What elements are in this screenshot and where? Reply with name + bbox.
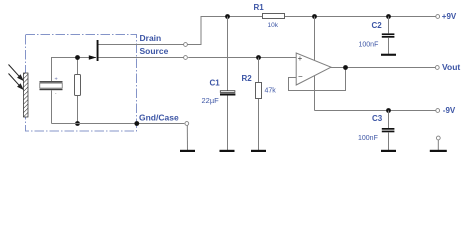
wire: R2 to ground: [258, 99, 260, 150]
node: op-amp supply junction: [312, 14, 317, 19]
wire: op-amp negative supply: [314, 76, 316, 111]
wire: C2 to ground: [388, 38, 390, 54]
node: C2 junction: [386, 14, 391, 19]
gate wire and arrow: [89, 57, 96, 59]
svg-text:+9V: +9V: [442, 12, 457, 21]
pin -9V terminal: [436, 109, 440, 113]
wire: inverting input / feedback loop: [289, 68, 346, 91]
svg-text:R2: R2: [242, 74, 253, 83]
wire: drain line: [99, 44, 185, 46]
wire: 0V terminal to ground: [437, 140, 439, 150]
resistor R1: [263, 14, 285, 19]
svg-text:22µF: 22µF: [202, 96, 220, 105]
pin 0V terminal: [436, 136, 440, 140]
node: case/rail junction: [134, 121, 139, 126]
IR arrow 1: [9, 65, 23, 81]
transistor Q1 (JFET) channel bar: [97, 40, 99, 61]
wire: Gnd/Case to ground: [186, 125, 188, 150]
ground bar under Gnd/Case: [180, 150, 195, 152]
capacitor C2: [382, 33, 395, 37]
IR arrow 2: [9, 74, 23, 90]
sensor case dash-dot outline: [26, 35, 137, 132]
wire: drain to top rail: [187, 17, 262, 45]
svg-text:C1: C1: [210, 79, 221, 88]
svg-text:100nF: 100nF: [359, 42, 379, 49]
svg-text:-9V: -9V: [443, 106, 456, 115]
wire: output: [331, 67, 436, 69]
ground bar under C1: [220, 150, 235, 152]
svg-text:47k: 47k: [265, 88, 277, 95]
node: C3 junction: [386, 108, 391, 113]
node: gate/resistor junction: [75, 55, 80, 60]
wire: gate line: [52, 58, 90, 82]
resistor Rg (internal): [75, 75, 81, 96]
wire: C1 to ground: [227, 96, 229, 151]
pin Gnd/Case terminal: [185, 122, 189, 126]
pyro element window (hatched bar): [24, 73, 29, 117]
wire: R2 riser: [258, 58, 260, 83]
node: R2 junction: [256, 55, 261, 60]
svg-text:+: +: [55, 77, 58, 83]
svg-text:Vout: Vout: [442, 62, 460, 72]
svg-text:+: +: [298, 54, 303, 63]
svg-text:100nF: 100nF: [358, 135, 378, 142]
wire: top rail right of R1: [285, 16, 437, 18]
node: C1 top junction: [225, 14, 230, 19]
wire: op-amp positive supply: [314, 17, 316, 61]
wire: element to ground rail: [51, 90, 53, 123]
ground bar under R2: [251, 150, 266, 152]
svg-text:Drain: Drain: [140, 33, 162, 43]
ground bar under C2: [381, 54, 396, 56]
sensor ground rail: [52, 123, 185, 125]
pyroelectric element PE: [40, 77, 63, 97]
svg-text:10k: 10k: [268, 22, 279, 29]
pin Source terminal: [184, 56, 188, 60]
op-amp U1: [296, 53, 331, 85]
wire: source line: [99, 57, 185, 59]
wire: source line to op-amp: [188, 57, 296, 59]
svg-text:R1: R1: [254, 3, 265, 12]
svg-text:-: -: [55, 91, 57, 97]
node: output junction: [343, 65, 348, 70]
capacitor C1: [220, 91, 235, 96]
svg-text:C2: C2: [372, 21, 383, 30]
wire: resistor to ground rail: [77, 96, 79, 124]
svg-text:C3: C3: [372, 114, 383, 123]
wire: -9V rail: [315, 110, 437, 112]
ground bar under 0V: [430, 150, 447, 152]
wire: C3 riser: [388, 111, 390, 129]
svg-text:−: −: [298, 72, 303, 81]
pin Drain terminal: [184, 43, 188, 47]
wire: C3 to ground: [388, 132, 390, 150]
svg-text:Gnd/Case: Gnd/Case: [139, 113, 179, 123]
wire: C2 riser: [388, 17, 390, 34]
pin Vout terminal: [435, 66, 439, 70]
capacitor C3: [382, 128, 395, 132]
wire: gate to resistor riser: [77, 58, 79, 75]
wire: C1 riser: [227, 17, 229, 91]
ground bar under C3: [381, 150, 396, 152]
svg-text:Source: Source: [140, 46, 169, 56]
pin +9V terminal: [436, 15, 440, 19]
node: resistor/rail junction: [75, 121, 80, 126]
resistor R2: [256, 83, 262, 99]
